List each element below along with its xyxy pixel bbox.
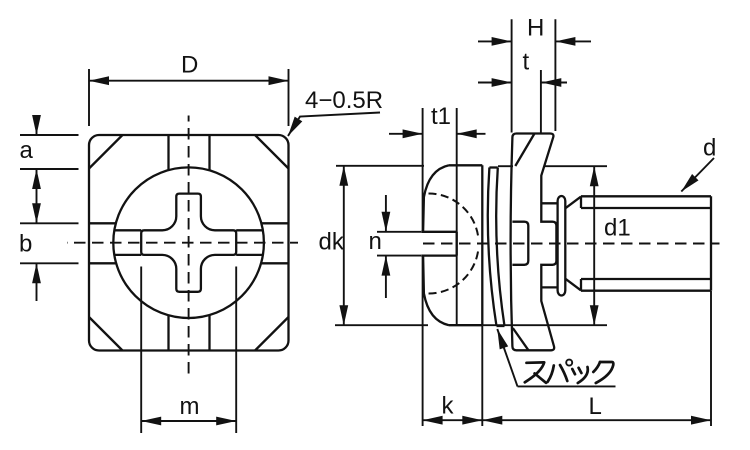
svg-text:b: b xyxy=(19,231,32,258)
svg-text:D: D xyxy=(181,52,198,79)
svg-text:t: t xyxy=(523,49,530,76)
svg-text:H: H xyxy=(527,15,544,42)
svg-text:k: k xyxy=(442,393,455,420)
svg-text:a: a xyxy=(20,137,34,164)
svg-text:4−0.5R: 4−0.5R xyxy=(305,87,383,114)
svg-text:dk: dk xyxy=(319,229,345,256)
svg-text:d: d xyxy=(703,135,716,162)
svg-text:m: m xyxy=(180,393,200,420)
svg-text:t1: t1 xyxy=(431,103,451,130)
svg-text:n: n xyxy=(369,228,382,255)
svg-text:d1: d1 xyxy=(604,215,631,242)
svg-text:L: L xyxy=(589,393,602,420)
